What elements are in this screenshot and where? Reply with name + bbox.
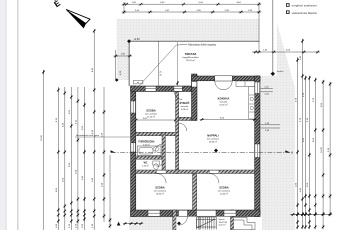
terrain gray: left strip: [117, 19, 129, 80]
svg-text:KONYHA: KONYHA: [218, 97, 230, 101]
terrace zk box: [133, 80, 143, 84]
legend item 1: [286, 3, 317, 7]
svg-text:16,80 m²: 16,80 m²: [209, 140, 218, 143]
leader diagonal to note: [138, 45, 187, 88]
dim right top horizontal: [252, 51, 318, 53]
svg-text:Hőszivattyú kültéri egység: Hőszivattyú kültéri egység: [188, 44, 216, 47]
svg-text:SZOBA: SZOBA: [146, 109, 155, 113]
svg-text:13,45 m²: 13,45 m²: [219, 103, 228, 106]
svg-text:Hevederzáró acél gyám: Hevederzáró acél gyám: [76, 134, 99, 137]
strip node: [115, 78, 119, 82]
svg-text:burkolat: burkolat: [181, 105, 189, 108]
kitchen double door opening: [215, 76, 232, 90]
interior wall bath right: [162, 132, 165, 173]
section line A-A: [111, 152, 290, 154]
svg-text:lam. parketta: lam. parketta: [145, 113, 158, 116]
interior main cross wall: [136, 170, 255, 174]
window top wall 1: [145, 86, 156, 91]
dims right of kitchen window: [261, 88, 273, 90]
svg-text:WC: WC: [144, 163, 148, 165]
interior wall szoba1 bottom: [136, 132, 179, 135]
helper line terrace door: [177, 42, 179, 86]
interior wall between szobas: [193, 174, 197, 211]
svg-text:vázkerámia falazat: vázkerámia falazat: [292, 11, 317, 15]
outer wall bottom: [131, 210, 260, 217]
terrain gray: bottom band: [129, 217, 260, 231]
svg-text:16,30: 16,30: [41, 134, 43, 140]
window right wall kitchen: [255, 82, 260, 94]
svg-text:FÜRDŐSZOBA: FÜRDŐSZOBA: [138, 141, 155, 144]
svg-text:burkolat: burkolat: [220, 101, 228, 104]
nappali node: [214, 149, 218, 153]
window bottom szoba4: [224, 210, 236, 216]
window left wall bath: [131, 143, 136, 152]
kitchen left wall pass: [192, 82, 197, 88]
bath fixtures tub: [138, 146, 162, 156]
kitchen counter top row: [236, 81, 255, 87]
door elotér->nappali arc: [179, 123, 187, 131]
svg-text:NAPPALI: NAPPALI: [207, 134, 219, 138]
north arrow: [66, 10, 86, 28]
dim chain top row2: [124, 11, 259, 13]
terrace divider line: [157, 41, 159, 88]
entry hall right wall: [231, 210, 234, 230]
note line left: [75, 136, 131, 138]
svg-text:lépcső: lépcső: [219, 219, 226, 221]
stairs arrow: [197, 219, 216, 228]
entry door opening bottom: [197, 210, 217, 216]
entry node: [177, 222, 181, 226]
svg-text:fagyálló burkolat: fagyálló burkolat: [183, 56, 199, 59]
dim right bottom horizontal: [290, 214, 330, 216]
door top wall (terrace entry): [174, 86, 182, 91]
exterior steps: [234, 217, 255, 230]
svg-text:lam. parketta: lam. parketta: [218, 190, 231, 193]
terrace top line: [129, 40, 259, 42]
window right wall nappali: [255, 144, 260, 158]
door szoba4 arc: [209, 174, 219, 184]
terrace left line: [128, 41, 130, 86]
photo left edge strip: [0, 0, 7, 230]
terrain gray: right wedge: [260, 23, 295, 230]
wc toilet: [153, 161, 160, 165]
dim extension right: [258, 2, 260, 52]
stairs treads: [196, 217, 216, 230]
helper line entry: [198, 217, 200, 231]
svg-text:4,60 m²: 4,60 m²: [143, 143, 150, 146]
svg-text:1,40 m²: 1,40 m²: [142, 164, 149, 167]
section marker right: [285, 150, 290, 152]
door hallway->bath arc: [156, 144, 163, 151]
interior wall elotér bottom: [179, 117, 192, 120]
outer wall top (left section): [131, 86, 192, 92]
legend item 2: [286, 10, 317, 14]
svg-text:kerítés: kerítés: [277, 70, 284, 73]
svg-text:meglévő szerkezet: meglévő szerkezet: [292, 4, 317, 8]
dims bottom left: [125, 223, 141, 225]
dims right of nappali window: [261, 124, 281, 126]
door hallway->wc arc: [157, 161, 163, 167]
node terrace corner: [127, 39, 131, 43]
dim extension left: [123, 2, 125, 14]
window left wall szoba1: [131, 101, 136, 113]
svg-text:+4,59: +4,59: [134, 38, 141, 41]
dim chains right: [297, 57, 299, 227]
section marker left: [111, 150, 116, 152]
door szoba3 arc: [156, 174, 166, 184]
svg-text:lam. parketta: lam. parketta: [154, 190, 167, 193]
svg-text:lam. parketta: lam. parketta: [207, 138, 220, 141]
dim szoba1 3,61: [136, 119, 176, 121]
svg-text:SZOBA: SZOBA: [219, 186, 228, 190]
outer wall kitchen left: [192, 74, 198, 121]
door terrace->etkezo arc: [174, 92, 182, 100]
svg-text:A: A: [291, 151, 293, 155]
window bottom szoba3: [148, 210, 160, 216]
kitchen counter: [249, 87, 255, 120]
terrain gray: top band: [117, 19, 260, 41]
entry hall left wall: [173, 210, 176, 230]
dim chain top row1: [124, 3, 259, 5]
svg-text:16x17/29: 16x17/29: [219, 222, 228, 224]
dim chains left: [57, 87, 59, 230]
svg-text:16,30: 16,30: [321, 146, 323, 152]
paper fold line: [16, 0, 19, 230]
outer wall right: [255, 76, 260, 217]
svg-text:TERASZ: TERASZ: [185, 52, 197, 56]
svg-text:11,20 m²: 11,20 m²: [147, 115, 155, 118]
outer wall kitchen top: [192, 76, 261, 81]
interior wall szoba1 right: [176, 92, 179, 174]
interior wall bath/wc: [136, 156, 162, 159]
dimension chains: [41, 2, 332, 230]
bath sink: [153, 147, 159, 151]
svg-text:12,60 m²: 12,60 m²: [220, 192, 229, 195]
svg-text:ÉTKEZŐ: ÉTKEZŐ: [180, 102, 190, 105]
svg-text:3,08 m²: 3,08 m²: [181, 108, 188, 111]
svg-text:4,20 m²: 4,20 m²: [219, 224, 226, 227]
dim nappali 5,04: [202, 119, 255, 121]
white cutout: entry steps: [234, 214, 262, 230]
svg-text:SZOBA: SZOBA: [155, 186, 164, 190]
outer wall left: [131, 86, 136, 217]
svg-text:36,24 m²: 36,24 m²: [186, 59, 195, 62]
svg-text:16,30 m²: 16,30 m²: [156, 192, 165, 195]
fence line: [272, 0, 274, 74]
dim strip 1,36: [116, 55, 130, 57]
stairs handrail: [196, 220, 216, 228]
fence node: [271, 72, 275, 76]
